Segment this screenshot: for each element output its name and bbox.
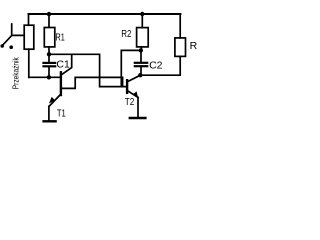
svg-text:T2: T2: [125, 96, 135, 108]
svg-text:Przekaźnik: Przekaźnik: [12, 56, 21, 89]
svg-text:C1: C1: [56, 59, 70, 71]
svg-text:R: R: [190, 40, 198, 52]
svg-text:R2: R2: [121, 28, 131, 40]
svg-text:R1: R1: [56, 31, 65, 43]
svg-text:T1: T1: [57, 107, 66, 119]
svg-text:C2: C2: [149, 60, 163, 72]
